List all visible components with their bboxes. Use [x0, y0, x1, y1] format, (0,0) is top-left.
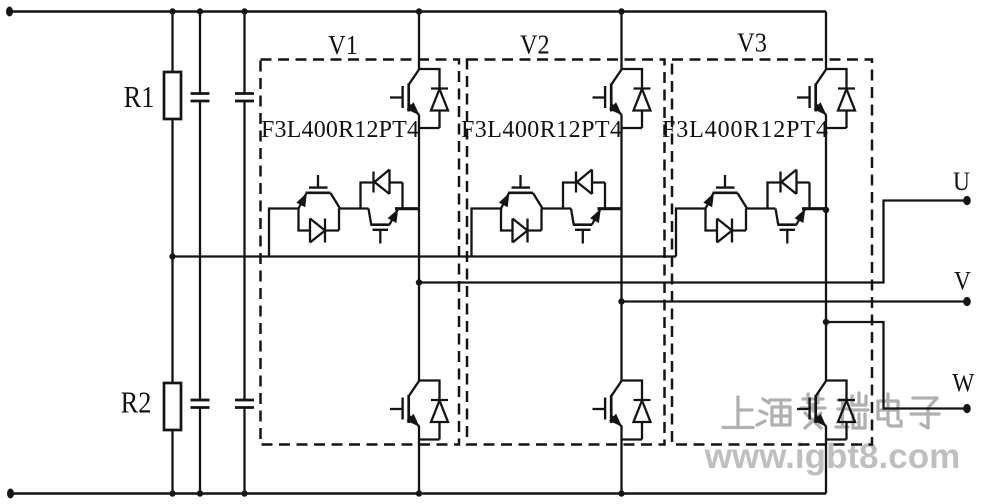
svg-text:U: U [953, 168, 970, 196]
svg-text:V: V [954, 267, 971, 295]
svg-text:W: W [952, 369, 975, 397]
svg-text:V2: V2 [520, 29, 550, 59]
svg-text:www.igbt8.com: www.igbt8.com [704, 437, 960, 476]
svg-text:V1: V1 [328, 30, 358, 60]
svg-text:F3L400R12PT4: F3L400R12PT4 [662, 117, 828, 143]
svg-text:R2: R2 [121, 386, 152, 420]
svg-text:R1: R1 [124, 80, 155, 114]
svg-text:F3L400R12PT4: F3L400R12PT4 [461, 117, 622, 143]
svg-text:V3: V3 [737, 27, 767, 57]
svg-text:F3L400R12PT4: F3L400R12PT4 [261, 117, 419, 143]
